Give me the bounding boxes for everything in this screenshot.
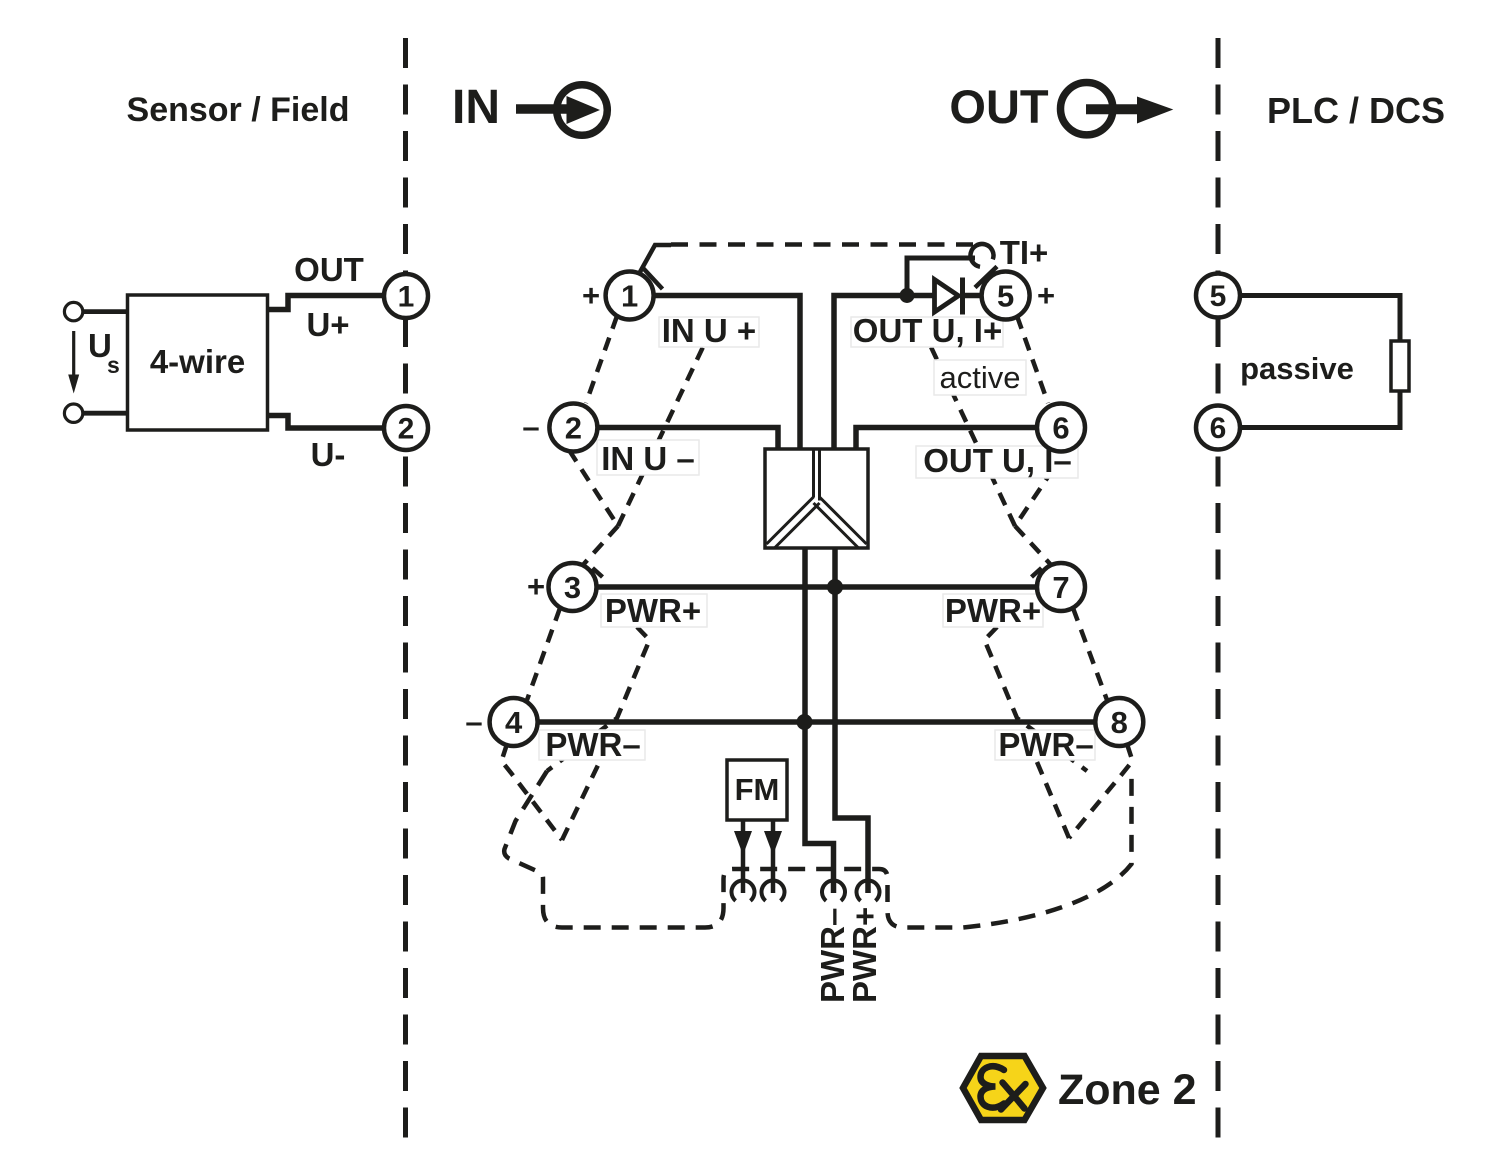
IN icon circle — [557, 85, 608, 136]
label box OUT U I+ — [851, 317, 1003, 347]
svg-text:PLC / DCS: PLC / DCS — [1267, 90, 1445, 131]
plug loop dashed edge terminal 5 to 6 — [1017, 316, 1048, 403]
wire PWR- rail terminal 4 to 8 — [538, 719, 1097, 725]
disconnect slash at terminal 7 — [1032, 568, 1042, 577]
terminal 5 right boundary — [1196, 274, 1240, 318]
terminal 1 — [606, 272, 654, 320]
label box PWR+ left — [601, 594, 707, 627]
converter isolation block U1 — [765, 449, 868, 548]
socket contact PWR- — [822, 880, 845, 900]
plug loop dashed edge tip to PWR- label — [562, 761, 600, 840]
label box PWR+ right — [943, 594, 1043, 627]
svg-text:OUT U, I–: OUT U, I– — [923, 442, 1072, 479]
terminal 1 left boundary — [384, 274, 428, 318]
PLC passive loop wire top — [1240, 296, 1400, 342]
plug loop dashed edge terminal 2 to tip — [569, 450, 618, 526]
IN icon arrowhead — [567, 96, 601, 124]
wire sensor upper to 4-wire box — [83, 309, 128, 314]
socket contact FM left — [732, 880, 755, 900]
svg-text:7: 7 — [1052, 570, 1069, 605]
plug loop dashed edge terminal 7 to 8 — [1073, 608, 1107, 700]
disconnect slash at terminal 1 — [643, 268, 663, 289]
socket contact PWR+ — [857, 880, 880, 900]
plug loop dashed edge terminal 1 to 2 — [586, 316, 617, 403]
Ex hexagon symbol — [963, 1056, 1043, 1120]
FM box — [727, 760, 787, 820]
plug loop dashed edge tip to terminal 3 — [582, 526, 618, 566]
svg-text:s: s — [107, 352, 120, 378]
plug loop dashed edge terminal 8 to tip — [1069, 744, 1133, 838]
diode D1 — [935, 280, 959, 313]
wire IN U- terminal 2 to converter — [597, 428, 778, 450]
Us voltage arrow — [72, 331, 75, 377]
wire internal PWR- converter to socket — [805, 548, 834, 893]
sensor source terminal upper — [64, 302, 82, 320]
plug loop dashed edge tip to IN U+ label — [618, 347, 703, 526]
svg-text:OUT: OUT — [294, 251, 364, 288]
label box IN U+ — [659, 317, 759, 347]
svg-text:5: 5 — [997, 279, 1014, 314]
test loop solid corner at terminal 1 — [640, 245, 671, 272]
plug loop dashed edge terminal 3 to 4 — [527, 608, 560, 700]
svg-text:8: 8 — [1111, 705, 1128, 740]
inner dashed zigzag below PWR+ left — [547, 627, 650, 771]
svg-text:2: 2 — [565, 411, 582, 446]
svg-text:+: + — [582, 278, 600, 313]
svg-text:4: 4 — [505, 705, 523, 740]
svg-text:2: 2 — [398, 413, 415, 446]
wire PWR+ rail terminal 3 to 7 — [596, 584, 1038, 590]
wire sensor lower to 4-wire box — [83, 411, 128, 416]
sensor source terminal lower — [64, 404, 82, 422]
wire diode to terminal 5 — [960, 293, 983, 299]
socket contact FM right — [762, 880, 785, 900]
test loop wire from junction to hook — [907, 258, 975, 296]
zone boundary dashed line right — [1216, 38, 1221, 1140]
svg-text:5: 5 — [1210, 280, 1227, 313]
FM wire right with arrow — [771, 820, 776, 893]
inner dashed zigzag below PWR+ right — [985, 627, 1088, 771]
wire 4-wire box to terminal 1 — [268, 296, 386, 310]
svg-text:OUT U, I+: OUT U, I+ — [853, 312, 1002, 349]
svg-text:PWR+: PWR+ — [945, 592, 1041, 629]
svg-text:–: – — [522, 409, 539, 444]
svg-text:3: 3 — [564, 570, 581, 605]
svg-text:1: 1 — [621, 279, 638, 314]
PLC passive loop wire bottom — [1240, 391, 1400, 428]
disconnect slash at terminal 3 — [593, 568, 603, 577]
OUT icon arrowhead — [1137, 97, 1173, 124]
svg-text:Sensor / Field: Sensor / Field — [127, 91, 350, 129]
svg-text:IN U +: IN U + — [662, 312, 756, 349]
svg-text:OUT: OUT — [949, 80, 1049, 133]
resistor load — [1391, 341, 1409, 391]
plug loop dashed edge tip to PWR- right label — [1037, 762, 1069, 838]
terminal 6 right boundary — [1196, 406, 1240, 450]
svg-text:IN U –: IN U – — [601, 440, 695, 477]
svg-text:1: 1 — [398, 281, 415, 314]
terminal 4 — [490, 698, 538, 746]
OUT icon arrow shaft — [1086, 104, 1152, 114]
plug loop dashed edge terminal 4 to tip — [502, 744, 563, 840]
svg-text:IN: IN — [452, 81, 500, 134]
svg-text:6: 6 — [1052, 411, 1069, 446]
svg-text:TI+: TI+ — [1000, 234, 1049, 271]
label box IN U- — [597, 440, 699, 475]
terminal 7 — [1037, 563, 1085, 611]
disconnect slash at terminal 5 — [975, 267, 997, 288]
wire IN U+ terminal 1 to converter — [654, 296, 801, 450]
svg-text:active: active — [940, 360, 1021, 395]
label box OUT U I- — [916, 446, 1078, 478]
terminal 5 — [982, 272, 1030, 320]
wire internal PWR+ converter to socket — [835, 548, 868, 893]
svg-text:–: – — [465, 704, 482, 739]
label box PWR- right — [995, 730, 1095, 760]
plug loop dashed edge terminal 6 to tip — [1015, 450, 1066, 526]
test loop dashed line TI — [671, 242, 973, 247]
IN icon arrow shaft — [516, 104, 574, 114]
svg-text:Zone 2: Zone 2 — [1058, 1066, 1197, 1114]
junction dot TI tap — [900, 288, 915, 303]
svg-text:PWR–: PWR– — [998, 726, 1093, 763]
TI+ socket hook at terminal 5 — [970, 244, 993, 267]
wire OUT U I- terminal 6 to converter — [856, 428, 1038, 450]
wire 4-wire box to terminal 2 — [268, 416, 386, 429]
terminal 2 — [549, 404, 597, 452]
terminal 6 — [1037, 404, 1085, 452]
terminal 2 left boundary — [384, 406, 428, 450]
svg-text:6: 6 — [1210, 412, 1227, 445]
label box PWR- left — [539, 730, 645, 760]
svg-text:PWR+: PWR+ — [846, 907, 883, 1003]
svg-text:U-: U- — [311, 436, 346, 473]
terminal 3 — [549, 563, 597, 611]
junction dot PWR+ rail — [827, 579, 843, 595]
transmitter 4-wire box — [128, 295, 268, 430]
svg-text:passive: passive — [1240, 351, 1354, 386]
wire OUT U I+ converter to diode — [834, 296, 936, 450]
svg-text:+: + — [1037, 278, 1055, 313]
svg-text:FM: FM — [735, 772, 780, 807]
svg-text:+: + — [527, 569, 545, 604]
svg-text:PWR–: PWR– — [545, 726, 640, 763]
FM wire left with arrow — [741, 820, 746, 893]
svg-text:4-wire: 4-wire — [150, 343, 245, 380]
terminal 8 — [1095, 698, 1143, 746]
svg-text:PWR+: PWR+ — [605, 592, 701, 629]
junction dot PWR- rail — [797, 714, 813, 730]
label box active — [934, 360, 1026, 395]
plug loop dashed edge tip to terminal 7 — [1015, 526, 1052, 566]
plug loop dashed edge tip to OUT U I+ label — [931, 347, 1015, 526]
zone boundary dashed line left — [403, 38, 408, 1140]
svg-text:U+: U+ — [306, 306, 349, 343]
OUT icon circle — [1061, 83, 1113, 135]
bottom plug connector dashed outline — [504, 768, 1131, 928]
